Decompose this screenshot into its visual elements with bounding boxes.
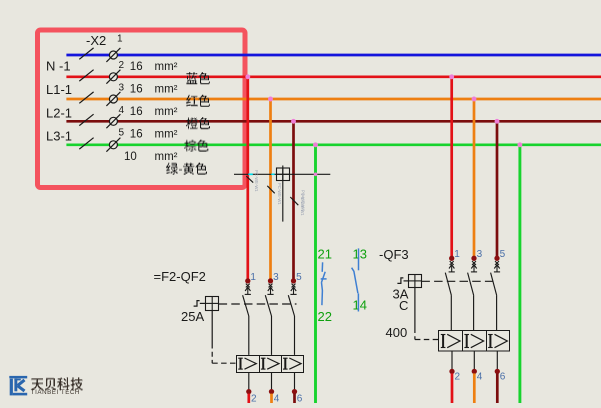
junction orange bus / QF2 drop [268, 97, 273, 102]
terminal -X2:2 circle [109, 73, 117, 81]
QF3 drive line vertical dashed [414, 328, 416, 340]
QF2 linkage dashed line [219, 303, 297, 305]
terminal -X2:1 circle [109, 51, 117, 59]
wire orange below QF3 pin4 [473, 373, 476, 403]
QF2 top pin 3 dot [268, 278, 273, 283]
junction link/green PE (pink) [314, 173, 318, 177]
junction green bus / left PE drop [313, 142, 318, 147]
QF3 pin 1 connection symbol (x over arrow) [449, 261, 455, 272]
QF2 pole 5-6 contact blade [288, 295, 294, 316]
QF2 bottom vertical pole 2 [248, 372, 250, 389]
QF3 pin 5 connection symbol (x over arrow) [494, 261, 500, 272]
QF3 pole 3-4 contact blade [468, 273, 474, 296]
svg-text:22: 22 [318, 309, 332, 324]
QF2 manual operator step glyph [194, 301, 200, 307]
wire colour label lv-huang-se (green-yellow) [166, 163, 207, 174]
QF2 bottom pin 2 dot [246, 389, 251, 394]
wire orange below QF2 pin4 [270, 394, 273, 403]
QF2 operator square with cross [206, 297, 219, 311]
logo icon (TIANBEI) [9, 376, 27, 396]
QF2 pole vertical to trip unit [248, 316, 250, 355]
svg-text:3: 3 [119, 83, 125, 94]
terminal -X2:5 circle [109, 141, 117, 149]
QF2 trip unit I> symbol 3 [283, 358, 301, 370]
QF3 bottom vertical pole 6 [496, 351, 498, 369]
wire N bus (blue) horizontal [66, 54, 601, 57]
wire PE bus (green) horizontal [66, 143, 601, 146]
QF2 bottom vertical pole 4 [271, 372, 273, 389]
QF2 pin 1 connection symbol (x over arrow) [245, 284, 251, 295]
svg-text:TIANBEI TECH: TIANBEI TECH [31, 389, 80, 396]
QF2 trip unit I> symbol 2 [261, 358, 279, 370]
QF2 bottom pin 4 dot [269, 389, 274, 394]
QF3 top pin 5 dot [494, 256, 499, 261]
wire slash mark on L3 bus (maroon) [79, 114, 93, 125]
QF3 operator square with cross [408, 274, 421, 287]
QF2 drive line horizontal dashed [212, 362, 236, 364]
QF2 pole vertical to trip unit [271, 316, 273, 355]
QF2 bottom pin 6 dot [292, 389, 297, 394]
wire colour label hong-se (red) [187, 95, 210, 106]
svg-text:L3-1: L3-1 [46, 129, 72, 144]
wire maroon drop to QF2 pin5 [292, 121, 295, 278]
QF2 top pin 5 dot [291, 278, 296, 283]
QF3 bottom vertical pole 2 [451, 351, 453, 369]
svg-text:PC-WE-W1: PC-WE-W1 [301, 190, 306, 212]
QF3 pole vertical to trip unit [450, 295, 452, 331]
QF3 drive line vertical solid [414, 288, 416, 329]
wire L1 bus (red) horizontal [66, 75, 601, 78]
wire slash mark on N bus (blue) [79, 48, 93, 59]
svg-text:mm²: mm² [155, 84, 178, 96]
QF3 trip unit I> symbol 2 [464, 334, 483, 348]
wire colour label zong-se (brown) [184, 140, 208, 151]
QF2 pin 5 connection symbol (x over arrow) [290, 284, 296, 295]
wire red drop to QF3 pin1 [450, 77, 453, 256]
QF3 top pin 3 dot [471, 256, 476, 261]
disconnect link vertical [282, 166, 284, 222]
QF2 operator dash to square [200, 302, 206, 304]
QF2 trip unit I> symbol 1 [238, 358, 256, 370]
aux contact 13-14 (blue) [352, 248, 359, 311]
svg-text:21: 21 [318, 247, 332, 262]
break slash on maroon drop [290, 197, 298, 205]
svg-text:5: 5 [119, 128, 125, 139]
QF3 drive line horizontal dashed [415, 339, 439, 341]
svg-text:1: 1 [250, 272, 256, 283]
svg-text:400: 400 [386, 325, 408, 340]
svg-text:L2-1: L2-1 [46, 106, 72, 121]
svg-text:6: 6 [297, 393, 303, 403]
break slash on orange drop [267, 186, 274, 194]
junction maroon bus / QF3 drop [495, 119, 500, 124]
disconnect operator square with cross [276, 168, 289, 181]
QF3 pin 3 connection symbol (x over arrow) [471, 261, 477, 272]
wire green PE vertical right [518, 145, 521, 403]
svg-text:L1-1: L1-1 [46, 82, 72, 97]
junction green bus / right PE drop [517, 142, 522, 147]
wire maroon below QF3 pin6 [496, 373, 499, 403]
wire slash mark on PE bus (green) [79, 138, 93, 149]
svg-text:PC-WE-W1: PC-WE-W1 [277, 183, 282, 205]
junction red bus / QF2 drop [245, 74, 250, 79]
QF3 top pin 1 dot [449, 256, 454, 261]
junction maroon bus / QF2 drop [291, 119, 296, 124]
svg-text:2: 2 [455, 372, 461, 383]
svg-text:25A: 25A [181, 309, 204, 324]
svg-text:1: 1 [117, 34, 123, 45]
svg-text:4: 4 [274, 393, 280, 403]
QF2 pole vertical to trip unit [294, 316, 296, 355]
QF3 pole 1-2 contact blade [445, 273, 451, 296]
QF2 pin 3 connection symbol (x over arrow) [267, 284, 273, 295]
logo chinese text 天贝科技 [32, 378, 82, 390]
svg-text:mm²: mm² [155, 106, 178, 118]
svg-text:13: 13 [353, 247, 367, 262]
QF2 drive line vertical dashed [211, 344, 213, 364]
wire orange drop to QF2 pin3 [269, 99, 272, 279]
svg-text:mm²: mm² [155, 129, 178, 141]
svg-text:5: 5 [500, 249, 506, 260]
svg-text:3: 3 [477, 249, 483, 260]
interruption tick (cyan) [248, 173, 253, 175]
svg-text:1: 1 [454, 249, 460, 260]
QF3 thermal-magnetic trip unit box [439, 331, 510, 352]
wire L2 bus (orange) horizontal [66, 98, 601, 101]
svg-text:6: 6 [500, 372, 506, 383]
svg-text:mm²: mm² [155, 61, 178, 73]
QF3 trip unit I> symbol 3 [488, 334, 507, 348]
disconnect link line horizontal [234, 173, 330, 175]
wire slash mark on L2 bus (orange) [79, 92, 93, 103]
junction red bus / QF3 drop [449, 74, 454, 79]
logo icon K arms [18, 380, 25, 391]
wire red below QF3 pin2 [451, 373, 454, 403]
red highlight box around terminal strip -X2 [38, 30, 246, 188]
svg-text:2: 2 [251, 393, 257, 403]
svg-text:mm²: mm² [155, 151, 178, 163]
QF2 top pin 1 dot [245, 278, 250, 283]
QF3 bottom vertical pole 4 [473, 351, 475, 369]
svg-text:4: 4 [119, 105, 125, 116]
QF3 pole vertical to trip unit [496, 295, 498, 331]
QF3 bottom pin 4 dot [472, 369, 477, 374]
wire colour label cheng-se (orange) [186, 118, 210, 129]
svg-text:5: 5 [296, 272, 302, 283]
svg-text:14: 14 [353, 298, 367, 313]
QF2 drive line vertical solid [211, 310, 213, 343]
break slash on red drop [246, 176, 253, 182]
wire colour label lan-se (blue) [187, 73, 210, 84]
QF2 pole 1-2 contact blade [243, 295, 249, 316]
QF3 manual operator step glyph [397, 278, 403, 284]
svg-text:3: 3 [273, 272, 279, 283]
wire red below QF2 pin2 [247, 394, 250, 403]
svg-text:PC-WE-W1: PC-WE-W1 [254, 170, 259, 192]
interruption tick 2 (cyan) [271, 173, 274, 175]
svg-text:N -1: N -1 [46, 59, 71, 74]
QF2 pole 3-4 contact blade [265, 295, 271, 316]
QF2 thermal-magnetic trip unit box [237, 356, 304, 373]
svg-text:16: 16 [130, 129, 143, 141]
svg-text:16: 16 [130, 61, 143, 73]
QF2 bottom vertical pole 6 [294, 372, 296, 389]
QF3 linkage dashed line [421, 280, 497, 282]
wire maroon below QF2 pin6 [293, 394, 296, 403]
svg-text:2: 2 [119, 60, 125, 71]
QF3 bottom pin 2 dot [449, 369, 454, 374]
wire slash mark on L1 bus (red) [79, 70, 93, 81]
svg-text:-QF3: -QF3 [379, 247, 409, 262]
wire maroon drop to QF3 pin5 [496, 121, 499, 256]
svg-text:4: 4 [477, 372, 483, 383]
aux contact 21-22 (blue) [321, 262, 327, 305]
wire red drop to QF2 pin1 [246, 77, 249, 279]
QF3 pole 5-6 contact blade [491, 273, 497, 296]
svg-text:=F2-QF2: =F2-QF2 [154, 269, 206, 284]
wire green PE vertical left [314, 145, 317, 403]
QF3 pole vertical to trip unit [473, 295, 475, 331]
QF3 bottom pin 6 dot [495, 369, 500, 374]
wire L3 bus (maroon) horizontal [66, 120, 601, 123]
svg-text:16: 16 [130, 84, 143, 96]
terminal -X2:4 circle [109, 117, 117, 125]
terminal -X2:3 circle [109, 95, 117, 103]
junction orange bus / QF3 drop [472, 97, 477, 102]
svg-text:16: 16 [130, 106, 143, 118]
svg-text:10: 10 [124, 151, 137, 163]
QF3 trip unit I> symbol 1 [441, 334, 460, 348]
QF3 operator dash to square [404, 280, 409, 282]
svg-text:C: C [399, 298, 408, 313]
wire orange drop to QF3 pin3 [473, 99, 476, 257]
svg-text:-X2: -X2 [86, 33, 106, 48]
